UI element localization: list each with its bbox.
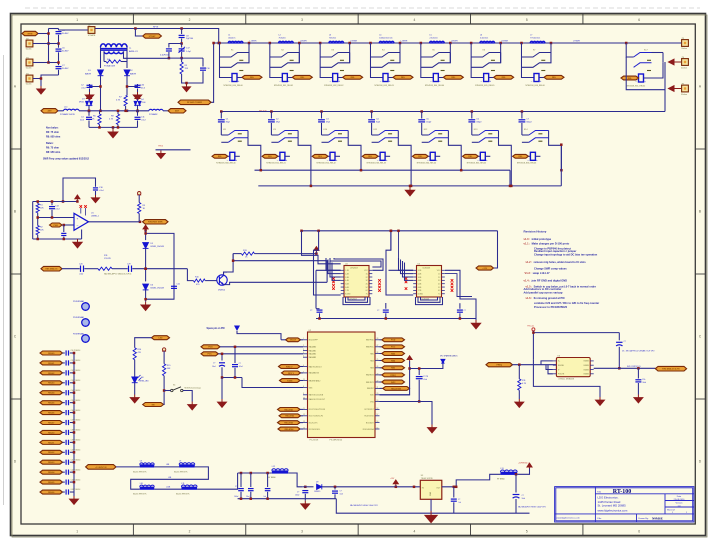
svg-text:27: 27 (377, 345, 379, 347)
svg-text:.01uf: .01uf (141, 120, 146, 122)
port REV (41, 266, 62, 271)
capacitor C25 (420, 110, 423, 113)
svg-text:REL63: REL63 (48, 462, 55, 464)
ground (157, 151, 165, 159)
ground arrow left (669, 59, 682, 65)
wire to 5V (517, 468, 529, 474)
ground (73, 239, 82, 248)
svg-text:FREQ: FREQ (496, 365, 502, 367)
svg-text:MV01: MV01 (79, 102, 85, 104)
wire (145, 248, 147, 281)
capacitor C8 (179, 35, 185, 37)
port REL4 (388, 77, 393, 79)
inductor L7 (530, 41, 545, 43)
inductor L5 (430, 41, 445, 43)
svg-text:L12: L12 (272, 466, 275, 468)
svg-text:100uf: 100uf (234, 496, 239, 498)
resistor R13 (233, 253, 241, 255)
svg-text:.01uf: .01uf (141, 88, 146, 90)
svg-text:+: + (389, 79, 391, 83)
no connect marks U4 (332, 277, 335, 280)
svg-text:Add inductors to DC controller: Add inductors to DC controller (524, 287, 562, 291)
svg-text:REL41: REL41 (48, 362, 55, 365)
svg-text:P1KERRAA1: P1KERRAA1 (73, 300, 84, 303)
svg-text:−: − (377, 158, 379, 162)
port REL8 (212, 154, 228, 158)
capacitor C28 (418, 369, 420, 376)
resistor R11 (518, 365, 520, 379)
svg-text:50ohm: 50ohm (26, 68, 32, 70)
wire down and back (131, 467, 209, 489)
svg-text:PCWA/B2: PCWA/B2 (149, 113, 157, 116)
svg-text:+: + (489, 79, 491, 83)
svg-text:RC4/SDI/SDA: RC4/SDI/SDA (363, 428, 375, 431)
svg-text:LED: LED (159, 338, 164, 340)
wire relay 12 common (448, 138, 461, 170)
port FREQ right (380, 374, 382, 376)
pin 6 RA4/T0CKI/C1O (303, 366, 308, 368)
wire cap rail (58, 29, 60, 31)
port RB0 (282, 371, 301, 375)
svg-text:5: 5 (303, 356, 304, 358)
svg-text:join RF GND and digital GND: join RF GND and digital GND (531, 278, 568, 282)
capacitor C4 (88, 111, 90, 116)
ground (301, 501, 310, 509)
svg-text:RELAY43: RELAY43 (284, 422, 294, 425)
svg-text:C40 P160014: C40 P160014 (71, 450, 81, 452)
capacitor C17 trimmer (181, 44, 183, 48)
resistor R16 (98, 267, 112, 270)
svg-text:RB7/PGD: RB7/PGD (366, 340, 374, 342)
inductor L12 (272, 470, 288, 473)
inductor L9 (179, 464, 195, 467)
svg-text:fix missing ground at PIC: fix missing ground at PIC (534, 296, 565, 300)
svg-text:Change input topology to aid D: Change input topology to aid DC bias tee… (534, 253, 598, 257)
inductor L11 (181, 487, 197, 490)
relay K3 (319, 42, 322, 45)
svg-text:K6B/B: K6B/B (584, 361, 590, 363)
pin 20 VDD (375, 394, 380, 396)
wire driver mid riser (390, 231, 392, 250)
svg-text:NA. MELA/PVO 58010 (ful 5PO): NA. MELA/PVO 58010 (ful 5PO) (104, 273, 132, 276)
wire regulator out (442, 474, 501, 487)
pad J2 strap (88, 27, 95, 34)
svg-text:Sheet of: Sheet of (667, 509, 675, 512)
capacitor ladder 6 (63, 412, 65, 414)
svg-text:NA. MELA/PVO HIGH. 516uF 5PO: NA. MELA/PVO HIGH. 516uF 5PO (518, 506, 546, 509)
capacitor C10 (202, 58, 204, 66)
inductor L15 (149, 109, 163, 110)
port SWR out (143, 220, 169, 224)
title block (555, 487, 694, 522)
wire caps join (222, 377, 242, 379)
svg-text:PIC18F25K20: PIC18F25K20 (330, 440, 343, 442)
svg-text:−: − (480, 79, 482, 83)
capacitor C3 (127, 84, 138, 87)
driver IC U5 (417, 266, 442, 298)
ground (70, 496, 79, 504)
svg-text:−: − (477, 158, 479, 162)
svg-text:NTE4558_K61_REL62: NTE4558_K61_REL62 (626, 86, 645, 88)
svg-text:PIC-SO28: PIC-SO28 (310, 440, 319, 442)
svg-text:80ohm RFB 3YK: 80ohm RFB 3YK (133, 494, 147, 496)
svg-text:C? P8: C? P8 (423, 376, 428, 378)
port PGC right (380, 346, 382, 348)
port REL1 (237, 77, 242, 79)
wire U5 out loop (445, 270, 476, 318)
svg-text:N9MSE: N9MSE (652, 516, 663, 520)
svg-text:C32 P160014: C32 P160014 (71, 370, 81, 372)
svg-text:1: 1 (76, 18, 78, 22)
wire (168, 52, 170, 58)
wire U4 out to U5 (330, 258, 381, 267)
svg-text:1006ohmmmm: 1006ohmmmm (379, 38, 393, 40)
svg-text:PGD: PGD (391, 340, 396, 342)
svg-text:TP1/5: TP1/5 (158, 145, 163, 147)
diode D2 (124, 70, 130, 76)
svg-text:Processor to PIC18F25K20: Processor to PIC18F25K20 (534, 305, 568, 309)
svg-text:NTE4558_K62_REL62: NTE4558_K62_REL62 (324, 85, 343, 87)
inductor L4 (379, 41, 394, 43)
capacitor ladder 5 (63, 402, 65, 404)
pad P3 (26, 59, 33, 66)
svg-text:+: + (77, 217, 79, 221)
svg-text:Make changes per D-100 proto: Make changes per D-100 proto (532, 242, 570, 246)
LED D7 (134, 360, 136, 377)
svg-text:v1.6 :: v1.6 : (526, 296, 533, 300)
svg-text:FWD/REV SWR: FWD/REV SWR (148, 222, 163, 224)
relay K4 (369, 42, 372, 45)
svg-text:P1KERRAA1: P1KERRAA1 (73, 316, 84, 319)
capacitor C2 (90, 84, 101, 87)
capacitor C37 pol (529, 474, 531, 479)
svg-text:L9: L9 (179, 461, 181, 463)
pin 13 RC2/CCP1 (303, 422, 308, 424)
inductor L14 (58, 110, 64, 112)
wire main RF bus top (214, 42, 680, 44)
svg-text:C41 P160014: C41 P160014 (71, 459, 81, 461)
capacitor ladder 14 (63, 491, 65, 493)
svg-text:+13V: +13V (482, 268, 487, 270)
wire input rail (48, 29, 50, 63)
capacitor C6 (56, 49, 62, 51)
wire freq top bus (532, 331, 534, 360)
port REL7 (539, 77, 544, 79)
svg-text:Add parallel cap across varica: Add parallel cap across varicap (524, 290, 563, 294)
svg-text:P6: P6 (682, 57, 684, 59)
power dot (75, 195, 80, 201)
capacitor C36 (453, 487, 455, 498)
capacitor ladder 12 (63, 471, 65, 473)
port FREQ IN (486, 363, 513, 367)
svg-text:REL40: REL40 (48, 352, 55, 355)
svg-text:1N5819: 1N5819 (314, 491, 320, 493)
svg-text:L7SWR: L7SWR (573, 41, 580, 43)
resistor R5 (181, 58, 183, 62)
pin 14 RC3/SCK/SCL (303, 428, 308, 430)
wire (618, 347, 620, 369)
svg-text:NTE4558_K61_REL41: NTE4558_K61_REL41 (266, 163, 285, 165)
svg-text:Revision History: Revision History (524, 229, 547, 233)
svg-text:AWBL-X1: AWBL-X1 (129, 50, 139, 53)
svg-text:26: 26 (377, 352, 379, 354)
capacitor C27 (234, 347, 236, 363)
power port circle (137, 192, 141, 195)
svg-text:File:: File: (598, 518, 603, 520)
wire bridge bottom (89, 126, 138, 128)
wire U6 out (594, 364, 620, 366)
svg-text:+: + (386, 158, 388, 162)
wire (156, 149, 191, 151)
power port +5V (527, 463, 532, 469)
port to tuner mid (163, 110, 168, 112)
port REL60 (40, 430, 63, 434)
svg-text:v1.2 :: v1.2 : (526, 260, 533, 264)
port REL14 (513, 154, 529, 158)
capacitor C16 (93, 188, 98, 190)
svg-text:−: − (327, 158, 329, 162)
svg-text:8-GND: 8-GND (418, 294, 424, 296)
pin 3 RA1/AN1 (303, 350, 308, 352)
svg-text:remove mtg holes, widen board: remove mtg holes, widen board to fit slo… (534, 260, 587, 264)
diode D6 zener (143, 284, 149, 290)
port RELAY long (380, 387, 383, 389)
svg-text:30-80V: 30-80V (62, 33, 69, 35)
wire (513, 364, 557, 366)
svg-text:39pf: 39pf (276, 122, 280, 124)
inductor L1 (228, 41, 243, 43)
wire cap bank bottom (238, 498, 337, 500)
port 13V relay (476, 266, 494, 270)
svg-text:6: 6 (303, 365, 304, 367)
wire (154, 465, 164, 467)
wire Q1 collector (224, 254, 234, 276)
capacitor ladder 9 (63, 441, 65, 443)
wire (100, 75, 102, 111)
relay coil K2 (270, 57, 283, 78)
svg-text:RFIN: RFIN (28, 33, 33, 35)
wire opamp out (89, 221, 141, 223)
svg-text:L3SWR: L3SWR (350, 41, 357, 43)
wire bridge left rail (100, 47, 102, 68)
pin 5 RA3/AN3 (303, 356, 308, 358)
pin 16 RC5/SDO (375, 422, 380, 424)
svg-text:C?: C? (310, 310, 312, 312)
svg-text:80ohm RFB 3YK: 80ohm RFB 3YK (176, 494, 190, 496)
svg-text:Resilient input capacitors / j: Resilient input capacitors / jumper (534, 249, 576, 253)
wire regulator gnd (430, 499, 432, 511)
wire U5 lower loop (421, 297, 438, 300)
svg-text:LTE604_ MGB0058: LTE604_ MGB0058 (558, 378, 574, 380)
svg-text:20: 20 (377, 393, 379, 395)
svg-text:REL62: REL62 (48, 452, 55, 454)
pin 19 VSS (375, 401, 380, 403)
svg-text:RF IN: RF IN (153, 26, 159, 28)
svg-text:K6B/B: K6B/B (584, 374, 590, 376)
port REL61 (40, 440, 63, 444)
svg-text:SW: SW (151, 404, 154, 406)
svg-text:combine C20 and C27 / R11 to 1: combine C20 and C27 / R11 to 12K to fix … (534, 301, 599, 305)
svg-text:RA7/OSC1/CLKIN: RA7/OSC1/CLKIN (309, 394, 324, 397)
svg-text:−: − (227, 158, 229, 162)
svg-text:REL42: REL42 (48, 372, 55, 375)
svg-text:R6: 75 ohm: R6: 75 ohm (46, 131, 59, 134)
resistor R4 (103, 51, 105, 61)
svg-text:RELAY42: RELAY42 (285, 415, 295, 418)
svg-text:+: + (288, 79, 290, 83)
svg-text:10uf: 10uf (340, 494, 344, 496)
capacitor ladder 3 (63, 382, 65, 384)
svg-text:2: 2 (189, 18, 191, 22)
capacitor C14 (63, 225, 65, 232)
capacitor ladder 11 (63, 461, 65, 463)
svg-text:1: 1 (303, 338, 304, 340)
svg-text:R8: 950 ohm: R8: 950 ohm (46, 136, 60, 139)
svg-text:50ohm: 50ohm (26, 84, 32, 86)
port REL45 (40, 401, 63, 405)
svg-text:REL60: REL60 (48, 432, 55, 434)
svg-text:J2: J2 (88, 25, 90, 27)
svg-text:C7b: C7b (642, 379, 645, 381)
wire main node (79, 110, 101, 112)
svg-text:RA0/AN0: RA0/AN0 (309, 346, 316, 349)
svg-text:18: 18 (377, 408, 379, 410)
svg-text:NTE4558_K65_REL45: NTE4558_K65_REL45 (467, 163, 486, 165)
port REL46 (40, 411, 63, 415)
svg-text:10uf: 10uf (522, 498, 526, 500)
port REL17 (621, 76, 639, 80)
svg-text:St. Leonard MD 20685: St. Leonard MD 20685 (598, 504, 627, 508)
svg-text:24: 24 (377, 366, 379, 368)
port RC0 (278, 421, 301, 425)
wire relay 13 common (499, 138, 512, 186)
svg-text:PCWA/B2 5HOW: PCWA/B2 5HOW (60, 113, 75, 116)
svg-text:+: + (338, 79, 340, 83)
svg-text:10: 10 (303, 397, 305, 399)
svg-text:C?: C? (464, 310, 466, 312)
driver IC U4 (344, 266, 369, 298)
resistor R1 (32, 202, 34, 240)
pad P7 (682, 85, 689, 92)
wire relay 14 common (549, 138, 562, 170)
svg-text:RB6/PGC: RB6/PGC (366, 347, 374, 349)
svg-text:B: B (14, 210, 16, 214)
svg-text:FWD ANALOG 4.75V: FWD ANALOG 4.75V (662, 368, 680, 371)
svg-text:REL66: REL66 (48, 492, 55, 494)
svg-text:C?: C? (377, 310, 379, 312)
capacitor C23 (320, 110, 323, 113)
pin 28 RB7/PGD (375, 339, 380, 341)
ground (218, 399, 227, 407)
port REL10 (312, 154, 328, 158)
relay coil K3 (320, 57, 333, 78)
svg-text:5: 5 (526, 530, 528, 534)
svg-text:REL44: REL44 (48, 392, 55, 395)
capacitor ladder 7 (63, 422, 65, 424)
inductor L8 (140, 464, 155, 467)
ground (141, 302, 150, 311)
capacitor C9 (166, 49, 172, 51)
pin 11 RC0/T1OSO/T13CKI (303, 408, 308, 410)
relay K6 (470, 42, 473, 45)
svg-text:initial prototype: initial prototype (532, 237, 552, 241)
svg-text:STRAPB: STRAPB (88, 34, 96, 37)
relay coil K9 (280, 152, 285, 160)
svg-text:MCLR/VPP: MCLR/VPP (309, 340, 319, 342)
wire U4 input bundle (326, 258, 341, 270)
wire U6 loops (541, 361, 553, 365)
port REL40 (40, 351, 63, 355)
svg-text:753ohm: 753ohm (329, 38, 337, 40)
ground (518, 390, 520, 399)
wire U4 lower loop (348, 297, 365, 300)
no connect x marks (80, 205, 83, 208)
svg-text:RB3: RB3 (370, 368, 373, 370)
svg-text:RF BEAD: RF BEAD (497, 478, 505, 481)
capacitor C32 (250, 473, 252, 487)
capacitor ladder 13 (63, 481, 65, 483)
svg-text:REL65: REL65 (48, 482, 55, 484)
svg-text:10uf: 10uf (212, 366, 216, 368)
svg-text:RB0/INT/AN12: RB0/INT/AN12 (309, 379, 321, 382)
svg-text:28: 28 (377, 338, 379, 340)
svg-text:FWD: FWD (53, 225, 58, 227)
pin 2 RA0/AN0 (303, 346, 308, 348)
wire relay 9 common (298, 138, 311, 186)
wire to cap bank (197, 473, 238, 489)
capacitor C33 (267, 473, 269, 487)
svg-text:+: + (436, 158, 438, 162)
port FWD (50, 223, 63, 227)
wire bus join (509, 170, 511, 186)
ground (188, 402, 197, 410)
svg-text:NTE4558_K60_REL60: NTE4558_K60_REL60 (224, 85, 243, 87)
svg-text:RC1/T1OSI/CCP2: RC1/T1OSI/CCP2 (309, 416, 323, 418)
capacitor C23 (383, 310, 389, 312)
svg-text:RA5/AN4/SS: RA5/AN4/SS (309, 372, 320, 375)
svg-text:7753ohmm: 7753ohmm (530, 38, 540, 40)
svg-text:5: 5 (526, 18, 528, 22)
wire (62, 268, 80, 270)
capacitor C13 (49, 207, 55, 209)
relay coil K6 (471, 57, 484, 78)
svg-text:3: 3 (301, 18, 303, 22)
relay coil K5 (421, 57, 434, 78)
port OSC1 (278, 408, 301, 412)
svg-text:D8: D8 (141, 377, 143, 379)
svg-text:PGD: PGD (208, 347, 213, 349)
capacitor C27 (521, 110, 524, 113)
svg-text:PCWA 1/4W: PCWA 1/4W (104, 65, 115, 68)
svg-text:FWD V: FWD V (286, 366, 293, 368)
node RFIN riser (181, 29, 183, 35)
svg-text:−: − (380, 79, 382, 83)
port ANT left (41, 109, 58, 113)
svg-text:100uf: 100uf (295, 495, 300, 497)
relay coil K14 (530, 152, 535, 160)
svg-text:RC0/T1OSO/T13CKI: RC0/T1OSO/T13CKI (309, 409, 326, 411)
diode D1 (98, 70, 104, 76)
svg-text:1-4pf: 1-4pf (186, 51, 191, 53)
varactor D4 (134, 99, 141, 105)
resistor R10 (187, 269, 193, 281)
pin 1 MCLR/VPP (303, 339, 308, 341)
pin 10 RA6/OSC2/CLKOUT (303, 398, 308, 400)
wire (221, 378, 223, 400)
capacitor C26 (221, 354, 223, 361)
resistor R7 (124, 96, 127, 107)
capacitor C31 (240, 473, 242, 487)
